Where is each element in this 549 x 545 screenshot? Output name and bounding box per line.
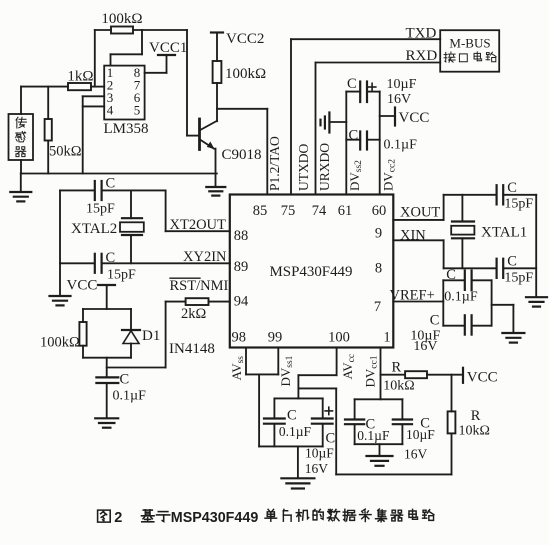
svg-text:100kΩ: 100kΩ [40,335,80,351]
wire 100k left down [95,30,111,87]
svg-text:C: C [430,313,440,329]
label DVss2 [347,160,364,191]
pin 99 [268,330,283,346]
svg-text:2: 2 [114,510,122,526]
label RXD [406,48,438,64]
svg-text:15pF: 15pF [504,197,533,212]
pin numbers LM358 [107,65,141,118]
svg-text:89: 89 [234,259,249,275]
wire to 2k resistor [107,302,166,368]
resistor 100kΩ feedback [101,11,142,34]
svg-text:XT2OUT: XT2OUT [170,217,227,233]
svg-text:C: C [507,254,517,270]
ground symbol xtal2 [50,296,71,305]
pin 89 [234,259,249,275]
svg-text:100kΩ: 100kΩ [225,66,266,82]
pin 1 [383,330,390,346]
svg-text:74: 74 [312,203,327,219]
wire XIN [393,240,443,268]
ground symbol reset [95,418,118,427]
svg-text:16V: 16V [404,447,428,462]
resistor 50kΩ [45,87,82,174]
resistor R 10kΩ to VCC [381,360,462,394]
capacitor C 10µF 16V vref [410,280,491,354]
label DVcc2 [380,159,397,191]
resistor 100kΩ collector [213,61,267,121]
ground symbol DVss2 (left-pointing) [321,113,347,133]
svg-text:99: 99 [268,330,283,346]
svg-text:4: 4 [107,103,114,118]
ground symbol emitter [206,187,225,196]
svg-text:MSP430F449: MSP430F449 [270,264,353,280]
wire 100k right to base node [133,30,200,136]
wire sensor top to 1k [21,87,68,114]
label RST/NMI [170,278,229,294]
capacitor C 0.1µF AVcc [264,398,323,446]
svg-text:94: 94 [234,294,249,310]
label XY2IN [183,249,227,265]
svg-text:XOUT: XOUT [400,205,440,221]
svg-text:R: R [471,408,481,424]
pin 60 [372,203,387,219]
svg-text:UTXDO: UTXDO [296,144,311,191]
svg-text:IN4148: IN4148 [169,341,215,357]
wire reset box top/bottom [83,309,131,377]
svg-text:0.1µF: 0.1µF [384,138,418,153]
svg-text:16V: 16V [305,461,329,476]
power VCC2 [211,31,264,61]
svg-text:10µF: 10µF [406,427,435,442]
pin 8 [375,261,382,277]
svg-text:9: 9 [375,226,382,242]
svg-text:C: C [287,408,297,424]
svg-text:75: 75 [281,203,296,219]
wire AVss down [258,374,260,446]
svg-text:R: R [392,360,402,376]
svg-text:C: C [106,176,116,192]
label TXD [406,25,437,41]
wire emitter down [215,149,217,187]
svg-text:XY2IN: XY2IN [183,249,227,265]
svg-text:M-BUS: M-BUS [449,36,490,51]
pin 61 [338,203,353,219]
svg-text:VCC: VCC [399,110,430,126]
wire DVcc2 net [379,92,381,195]
svg-text:1: 1 [383,330,390,346]
crystal XTAL1 [451,195,527,268]
svg-text:TXD: TXD [406,25,437,41]
label LM358 [104,121,149,137]
label DVcc1 [363,355,380,387]
wire DVcc1 cap bottom [355,444,403,455]
wire DVss2 net [345,92,347,195]
pin 7 [374,299,381,315]
svg-text:15pF: 15pF [107,268,136,283]
svg-text:10kΩ: 10kΩ [383,379,414,394]
wire XY2IN [102,262,230,264]
svg-text:VCC2: VCC2 [226,31,264,47]
wire AVcc to divider [298,388,451,474]
svg-text:10µF: 10µF [305,446,334,461]
svg-text:60: 60 [372,203,387,219]
pin 94 [234,294,249,310]
capacitor C 0.1µF reset [96,372,146,418]
svg-text:XIN: XIN [400,228,426,244]
ground symbol xtal1 [526,297,547,306]
capacitor C 10µF 16V DVcc1 [393,399,435,461]
svg-text:61: 61 [338,203,353,219]
resistor 2kΩ [166,298,230,322]
wire xtal1 right rail [535,195,537,297]
wire XT2OUT [166,190,230,231]
svg-text:VCC1: VCC1 [149,40,187,56]
svg-text:16V: 16V [387,92,411,107]
svg-text:C: C [326,431,336,447]
wire XOUT [393,195,443,220]
svg-text:0.1µF: 0.1µF [113,389,147,404]
svg-text:RST/NMI: RST/NMI [170,278,229,294]
wire vref to ground [492,305,514,333]
power VCC1 [145,40,188,73]
capacitor C 10µF 16V AVcc [305,398,335,476]
capacitor C 0.1µF top [346,128,417,153]
pin 98 [232,330,247,346]
svg-text:C: C [446,267,456,283]
svg-text:98: 98 [232,330,247,346]
label P1.2/TAO [267,136,282,191]
svg-text:URXDO: URXDO [317,143,332,191]
svg-text:C: C [120,372,130,388]
diode D1 IN4148 [122,309,160,358]
M-BUS interface box [440,30,499,71]
wire RXD net [316,63,441,195]
wire 1k to pin2 [91,86,104,88]
capacitor C 0.1µF DVcc1 [345,399,402,444]
label IN4148 [169,341,215,357]
resistor 1kΩ [67,69,93,91]
pin 85 [253,203,268,219]
svg-text:100kΩ: 100kΩ [101,11,142,27]
svg-text:7: 7 [374,299,381,315]
svg-text:1kΩ: 1kΩ [67,69,93,85]
svg-text:XTAL1: XTAL1 [481,225,527,241]
pin 88 [234,228,249,244]
svg-text:P1.2/TAO: P1.2/TAO [267,136,282,191]
transistor Q1 C9018 [200,119,262,163]
wire DVcc1 [380,348,382,400]
svg-text:100: 100 [328,330,350,346]
op-amp U1 LM358 box [104,66,144,120]
svg-text:0.1µF: 0.1µF [444,290,478,305]
ground symbol DVcc1 [367,456,393,466]
wire VREF+ [393,301,443,303]
sensor box 传感器 [9,114,34,160]
svg-text:10kΩ: 10kΩ [459,424,490,439]
svg-text:88: 88 [234,228,249,244]
svg-text:C: C [347,76,357,92]
label AVss [229,356,246,381]
svg-text:10µF: 10µF [387,77,417,92]
svg-text:RXD: RXD [406,48,438,64]
svg-text:0.1µF: 0.1µF [279,424,312,439]
ground symbol under sensor [10,174,31,202]
label XIN [400,228,426,244]
svg-text:D1: D1 [142,328,160,344]
pin 9 [375,226,382,242]
svg-text:50kΩ: 50kΩ [49,144,82,160]
MCU U2 MSP430F449 [230,195,393,348]
pin 74 [312,203,327,219]
svg-text:C: C [507,180,517,196]
wire AVss bottom bar [259,446,323,477]
caption 图2 MSP430F449 circuit title [98,509,434,526]
wire collector to P1.2/TAO [217,109,267,195]
power VCC reset [67,278,116,310]
svg-text:VCC: VCC [467,370,498,386]
wire AVss/DVss1 stub [246,348,278,375]
ground symbol AVss [281,478,314,488]
wire TXD net [291,39,440,194]
svg-text:C9018: C9018 [222,147,262,163]
svg-text:16V: 16V [413,339,437,354]
svg-text:2kΩ: 2kΩ [181,306,207,322]
pin 75 [281,203,296,219]
svg-text:8: 8 [375,261,382,277]
wire xtal2 left rail [59,190,61,295]
svg-text:LM358: LM358 [104,121,149,137]
label XT2OUT [170,217,227,233]
ground symbol vref [502,333,524,343]
capacitor C 10µF 16V top [346,76,416,107]
svg-text:0.1µF: 0.1µF [357,428,390,443]
capacitor C 15pF xtal1 top [444,180,537,212]
pin 100 [328,330,350,346]
wires pins 3,4 to ground rail [83,96,105,173]
svg-text:5: 5 [134,103,141,118]
crystal XTAL2 [71,190,144,263]
power VCC right [463,368,498,386]
wire AVcc routing [298,348,336,399]
label UTXDO [296,144,311,191]
label VREF+ [390,288,435,304]
wire 100k to op-amp pin1 [111,30,143,66]
capacitor C 15pF xtal1 bottom [444,254,537,286]
svg-text:XTAL2: XTAL2 [71,221,117,237]
capacitor C 0.1µF vref [443,267,491,326]
svg-text:85: 85 [253,203,268,219]
svg-text:C: C [349,128,359,144]
svg-text:15pF: 15pF [86,202,115,217]
label AVcc [340,354,357,380]
label URXDO [317,143,332,191]
ground rail left [21,160,217,174]
svg-text:15pF: 15pF [504,271,533,286]
label DVss1 [278,355,295,386]
power VCC tap DVcc2 [380,108,430,127]
capacitor C 15pF xtal2 bottom [60,250,136,283]
svg-text:VREF+: VREF+ [390,288,435,304]
svg-text:VCC: VCC [67,278,98,294]
resistor 100kΩ reset [40,309,87,358]
capacitor C 15pF xtal2 top [60,176,166,217]
resistor R 10kΩ divider [448,375,490,475]
label XOUT [400,205,440,221]
svg-text:MSP430F449: MSP430F449 [171,509,258,526]
